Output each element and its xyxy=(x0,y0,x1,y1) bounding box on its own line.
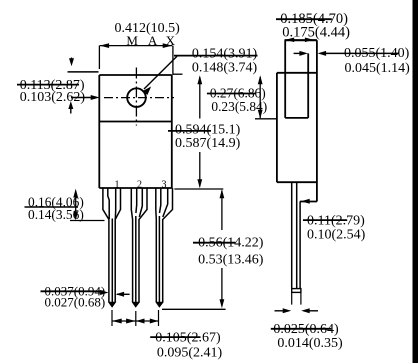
svg-text:1: 1 xyxy=(115,179,120,190)
svg-text:A: A xyxy=(148,33,158,48)
svg-text:0.23(5.84): 0.23(5.84) xyxy=(211,99,267,114)
mounting hole xyxy=(127,88,146,107)
svg-text:0.587(14.9): 0.587(14.9) xyxy=(175,136,241,151)
dim 0.055/0.045 xyxy=(294,52,304,54)
right black bar xyxy=(413,0,418,363)
dim 0.11/0.10 xyxy=(301,199,310,204)
side view outline xyxy=(277,40,317,201)
svg-text:0.014(0.35): 0.014(0.35) xyxy=(277,336,343,351)
dim 0.27/0.23 xyxy=(259,77,261,118)
svg-text:0.148(3.74): 0.148(3.74) xyxy=(192,61,258,76)
vertical centerline xyxy=(135,68,137,126)
lead 2 xyxy=(131,188,147,307)
side view lead xyxy=(292,182,301,304)
dim 0.113/0.103 left xyxy=(71,58,73,63)
dim 0.56/0.53 xyxy=(174,188,223,190)
lead 1 xyxy=(103,188,121,307)
svg-text:0.045(1.14): 0.045(1.14) xyxy=(345,61,411,76)
dim 0.025/0.014 xyxy=(275,310,289,312)
lead 3 xyxy=(156,188,173,307)
dim 0.154/0.148 hole leader xyxy=(174,55,258,57)
dim 0.594/0.587 xyxy=(173,73,183,75)
svg-text:0.095(2.41): 0.095(2.41) xyxy=(157,345,223,360)
svg-text:M: M xyxy=(126,33,138,48)
dim 0.16/0.14 xyxy=(75,192,77,218)
dim 0.105/0.095 pitch xyxy=(112,310,159,326)
front view package outline xyxy=(99,75,172,188)
svg-text:0.027(0.68): 0.027(0.68) xyxy=(45,295,106,310)
svg-text:0.154(3.91): 0.154(3.91) xyxy=(192,47,258,62)
svg-text:0.055(1.40): 0.055(1.40) xyxy=(344,46,410,61)
svg-text:0.10(2.54): 0.10(2.54) xyxy=(307,227,366,242)
svg-text:3: 3 xyxy=(162,180,167,191)
svg-text:2: 2 xyxy=(137,179,142,190)
svg-text:0.53(13.46): 0.53(13.46) xyxy=(198,253,264,268)
svg-text:0.14(3.56): 0.14(3.56) xyxy=(28,207,84,222)
svg-text:X: X xyxy=(166,33,176,48)
dim 0.412 MAX top xyxy=(99,46,172,75)
horizontal centerline xyxy=(104,97,174,99)
